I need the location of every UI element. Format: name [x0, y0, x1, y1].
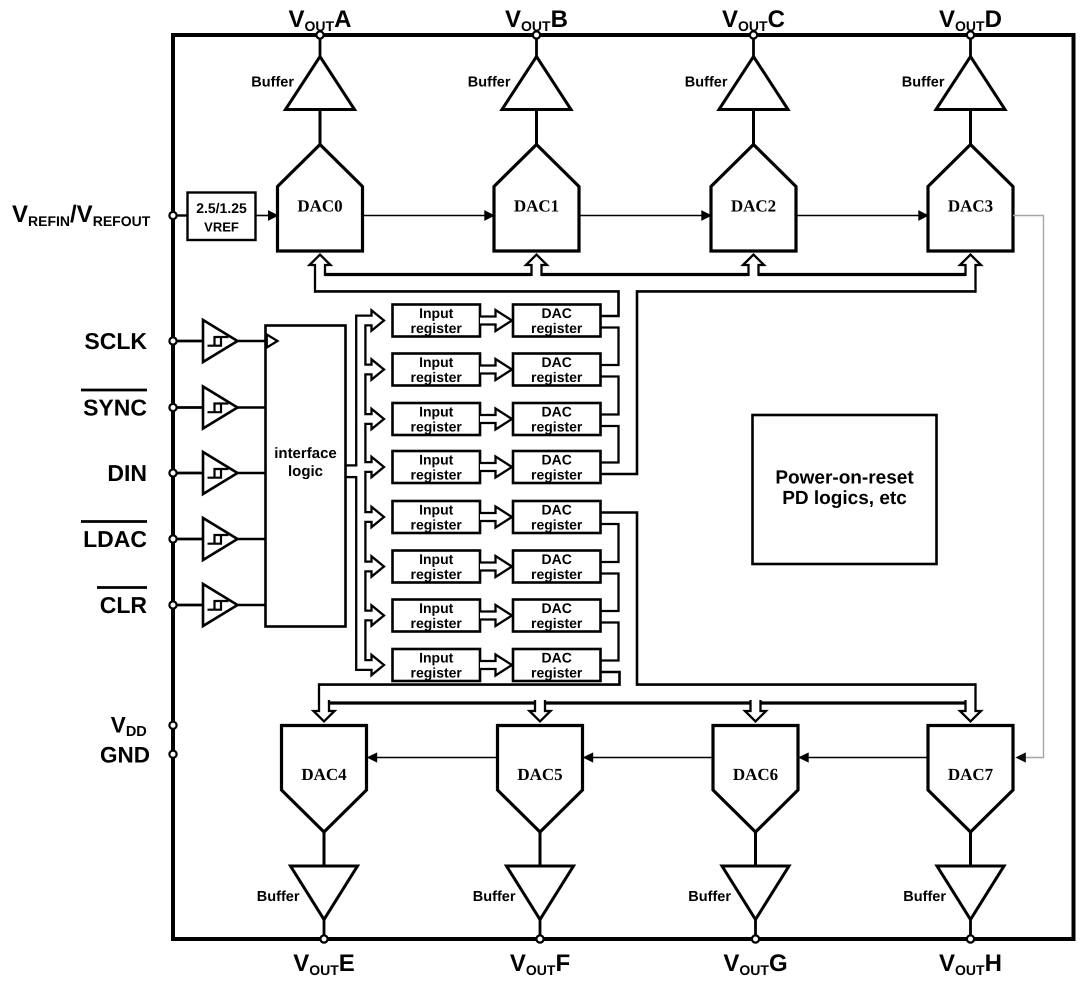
- svg-text:PD logics, etc: PD logics, etc: [782, 488, 907, 509]
- svg-text:CLR: CLR: [100, 592, 148, 618]
- svg-text:VOUTE: VOUTE: [293, 950, 355, 978]
- svg-text:Input: Input: [419, 305, 454, 321]
- pin V_REFIN: [177, 214, 188, 216]
- svg-text:logic: logic: [288, 463, 323, 480]
- svg-text:DAC0: DAC0: [297, 197, 342, 216]
- svg-text:DAC7: DAC7: [948, 765, 994, 784]
- pin V_OUTA: [316, 31, 323, 38]
- wire DAC7 to buffer: [969, 832, 972, 866]
- svg-text:VREFIN/VREFOUT: VREFIN/VREFOUT: [12, 201, 151, 229]
- svg-text:DAC1: DAC1: [514, 197, 559, 216]
- wire buffer to DAC1: [535, 110, 538, 146]
- DAC6 block: [713, 726, 798, 833]
- wire DAC0 to DAC1: [363, 215, 487, 217]
- pin CLR: [177, 604, 202, 607]
- input register 4: [393, 501, 481, 533]
- pin V_OUTF: [536, 935, 543, 942]
- DAC4 block: [282, 726, 367, 833]
- svg-text:VDD: VDD: [111, 713, 147, 741]
- wire DAC register 4 feed to bottom bus: [600, 513, 975, 685]
- wire VREF to DAC0: [256, 215, 270, 217]
- svg-text:register: register: [531, 615, 583, 631]
- svg-text:DAC: DAC: [542, 650, 572, 666]
- wire DAC register 7 feed to bottom bus: [319, 672, 620, 685]
- buffer amplifier (output D): [936, 57, 1005, 110]
- svg-text:register: register: [531, 467, 583, 483]
- wire LDAC to interface logic: [238, 538, 267, 541]
- svg-text:Input: Input: [419, 452, 454, 468]
- pin V_OUTD: [967, 31, 974, 38]
- input register 6: [393, 600, 481, 632]
- wire DAC5 to DAC4: [376, 757, 498, 759]
- svg-text:Input: Input: [419, 502, 454, 518]
- wire DAC5 to buffer: [539, 832, 542, 866]
- input register 1: [393, 354, 481, 386]
- wire DAC4 to buffer: [323, 832, 326, 866]
- svg-text:Buffer: Buffer: [688, 889, 731, 905]
- arrow input register 5 to DAC register 5: [480, 556, 512, 577]
- wire SYNC to interface logic: [238, 406, 267, 409]
- svg-text:Input: Input: [419, 551, 454, 567]
- wire DAC6 to buffer: [754, 832, 757, 866]
- svg-text:Buffer: Buffer: [468, 75, 511, 91]
- pin SYNC: [177, 406, 202, 409]
- svg-text:VOUTC: VOUTC: [722, 6, 785, 34]
- svg-text:VOUTB: VOUTB: [505, 6, 568, 34]
- svg-text:register: register: [411, 566, 463, 582]
- power-on-reset block: [753, 415, 937, 564]
- wire DAC register 4 to DAC register 5: [600, 524, 618, 562]
- svg-text:DAC3: DAC3: [948, 197, 993, 216]
- pin V_OUTB: [533, 31, 540, 38]
- input register 3: [393, 451, 481, 483]
- input register 7: [393, 649, 481, 681]
- svg-text:Buffer: Buffer: [473, 889, 516, 905]
- bus bottom (register outputs to DAC4-7): [329, 701, 535, 704]
- buffer amplifier (output C): [719, 57, 788, 110]
- DAC register 4: [513, 501, 601, 533]
- svg-text:register: register: [411, 369, 463, 385]
- pin V_OUTC: [750, 31, 757, 38]
- buffer amplifier (output A): [286, 57, 355, 110]
- DAC register 5: [513, 551, 601, 583]
- svg-text:Buffer: Buffer: [685, 75, 728, 91]
- wire pin to buffer D: [969, 39, 972, 57]
- arrow input register 1 to DAC register 1: [480, 359, 512, 380]
- schmitt buffer CLR: [203, 584, 238, 626]
- DAC0 block: [278, 145, 363, 252]
- bus top (register outputs to DAC0-3): [325, 273, 532, 276]
- arrow input register 4 to DAC register 4: [480, 507, 512, 528]
- svg-text:DAC: DAC: [542, 502, 572, 518]
- svg-text:DAC: DAC: [542, 354, 572, 370]
- svg-text:DAC: DAC: [542, 551, 572, 567]
- DAC register 0: [513, 305, 601, 337]
- svg-text:register: register: [411, 517, 463, 533]
- wire DAC7 to DAC6: [807, 757, 928, 759]
- arrow input register 2 to DAC register 2: [480, 409, 512, 430]
- arrow input register 0 to DAC register 0: [480, 310, 512, 331]
- svg-text:interface: interface: [274, 445, 337, 462]
- svg-text:DAC6: DAC6: [733, 765, 778, 784]
- pin V_OUTH: [967, 935, 974, 942]
- svg-text:register: register: [531, 665, 583, 681]
- wire CLR to interface logic: [238, 604, 267, 607]
- bus interface logic to input registers: [356, 310, 384, 675]
- svg-text:Input: Input: [419, 404, 454, 420]
- svg-text:GND: GND: [100, 743, 150, 768]
- arrow input register 3 to DAC register 3: [480, 457, 512, 478]
- svg-text:Buffer: Buffer: [903, 889, 946, 905]
- wire pin to buffer B: [535, 39, 538, 57]
- DAC register 3: [513, 451, 601, 483]
- pin V_OUTE: [320, 935, 327, 942]
- schmitt buffer LDAC: [203, 518, 238, 560]
- svg-text:Input: Input: [419, 650, 454, 666]
- bus bottom DAC feed line: [314, 683, 335, 721]
- input register 2: [393, 403, 481, 435]
- schmitt buffer SCLK: [203, 320, 238, 362]
- DAC register 2: [513, 403, 601, 435]
- DAC5 block: [498, 726, 583, 833]
- svg-text:register: register: [411, 320, 463, 336]
- svg-text:VOUTF: VOUTF: [510, 950, 570, 978]
- wire DAC register 2 to DAC register 3: [600, 426, 618, 463]
- svg-text:Buffer: Buffer: [251, 75, 294, 91]
- wire DAC register 5 to DAC register 6: [600, 574, 618, 612]
- svg-text:VOUTG: VOUTG: [723, 950, 787, 978]
- svg-text:DIN: DIN: [107, 460, 147, 486]
- svg-text:Buffer: Buffer: [902, 75, 945, 91]
- DAC3 block: [928, 145, 1013, 252]
- wire DAC3 to DAC7 (reference daisy-chain): [1013, 216, 1044, 758]
- wire DIN to interface logic: [238, 472, 267, 475]
- svg-text:VOUTD: VOUTD: [939, 6, 1002, 34]
- svg-text:VOUTA: VOUTA: [289, 6, 352, 34]
- DAC register 7: [513, 649, 601, 681]
- svg-text:register: register: [531, 320, 583, 336]
- wire buffer to DAC3: [969, 110, 972, 146]
- wire DAC2 to DAC3: [796, 215, 920, 217]
- DAC register 6: [513, 600, 601, 632]
- svg-text:Power-on-reset: Power-on-reset: [775, 468, 914, 489]
- svg-text:register: register: [411, 615, 463, 631]
- wire buffer to pin G: [754, 920, 757, 938]
- wire buffer to pin E: [323, 920, 326, 938]
- input register 0: [393, 305, 481, 337]
- wire buffer to DAC2: [752, 110, 755, 146]
- pin LDAC: [177, 538, 202, 541]
- svg-text:VOUTH: VOUTH: [939, 950, 1002, 978]
- buffer amplifier (output F): [507, 866, 574, 920]
- arrow input register 6 to DAC register 6: [480, 605, 512, 626]
- svg-text:register: register: [531, 517, 583, 533]
- arrow input register 7 to DAC register 7: [480, 655, 512, 676]
- DAC7 block: [928, 726, 1013, 833]
- pin V_DD: [169, 722, 176, 729]
- schmitt buffer SYNC: [203, 387, 238, 429]
- wire DAC1 to DAC2: [579, 215, 703, 217]
- svg-text:SYNC: SYNC: [83, 395, 147, 421]
- svg-text:2.5/1.25: 2.5/1.25: [196, 200, 247, 216]
- svg-text:DAC4: DAC4: [301, 765, 347, 784]
- pin GND: [169, 751, 176, 758]
- svg-text:DAC: DAC: [542, 600, 572, 616]
- svg-text:Buffer: Buffer: [257, 889, 300, 905]
- buffer amplifier (output H): [937, 866, 1004, 920]
- pin V_OUTG: [752, 935, 759, 942]
- wire DAC register 0 to DAC register 1: [600, 328, 618, 366]
- pin SCLK: [177, 340, 202, 343]
- wire SCLK to interface logic: [238, 340, 267, 343]
- wire DAC register 6 to DAC register 7: [600, 623, 618, 661]
- wire pin to buffer A: [319, 39, 322, 57]
- pin DIN: [177, 472, 202, 475]
- buffer amplifier (output B): [502, 57, 571, 110]
- wire buffer to DAC0: [319, 110, 322, 146]
- interface logic block: [266, 326, 346, 627]
- DAC1 block: [494, 145, 579, 252]
- DAC register 1: [513, 354, 601, 386]
- svg-text:LDAC: LDAC: [83, 526, 147, 552]
- wire DAC register 1 to DAC register 2: [600, 377, 618, 415]
- svg-text:VREF: VREF: [204, 220, 239, 235]
- svg-text:DAC5: DAC5: [517, 765, 562, 784]
- svg-text:DAC: DAC: [542, 305, 572, 321]
- svg-text:register: register: [531, 369, 583, 385]
- wire buffer to pin F: [539, 920, 542, 938]
- buffer amplifier (output E): [291, 866, 358, 920]
- svg-text:register: register: [531, 566, 583, 582]
- wire buffer to pin H: [969, 920, 972, 938]
- svg-text:register: register: [411, 665, 463, 681]
- wire interface logic output: [346, 464, 358, 466]
- bus top DAC feed line: [310, 255, 331, 293]
- wire DAC6 to DAC5: [592, 757, 714, 759]
- wire pin to buffer C: [752, 39, 755, 57]
- input register 5: [393, 551, 481, 583]
- wire DAC register 0 feed to top bus: [315, 291, 619, 316]
- svg-text:SCLK: SCLK: [84, 328, 147, 354]
- svg-text:DAC: DAC: [542, 404, 572, 420]
- svg-text:DAC2: DAC2: [731, 197, 776, 216]
- vref block 2.5/1.25 VREF: [188, 193, 256, 241]
- chip boundary: [173, 35, 1074, 939]
- DAC2 block: [711, 145, 796, 252]
- svg-text:Input: Input: [419, 600, 454, 616]
- svg-text:Input: Input: [419, 354, 454, 370]
- svg-text:register: register: [411, 467, 463, 483]
- SCLK clock input arrowhead: [267, 335, 278, 348]
- svg-text:register: register: [531, 419, 583, 435]
- svg-text:DAC: DAC: [542, 452, 572, 468]
- wire DAC register 3 feed to top bus: [600, 291, 975, 474]
- buffer amplifier (output G): [722, 866, 789, 920]
- schmitt buffer DIN: [203, 452, 238, 494]
- svg-text:register: register: [411, 419, 463, 435]
